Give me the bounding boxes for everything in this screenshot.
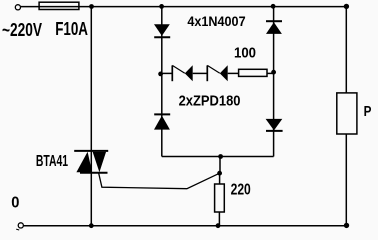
svg-text:~220V: ~220V <box>2 20 42 40</box>
svg-text:F10A: F10A <box>55 19 88 39</box>
svg-text:P: P <box>364 104 372 120</box>
svg-text:0: 0 <box>11 195 19 212</box>
svg-text:2xZPD180: 2xZPD180 <box>179 94 241 110</box>
svg-text:100: 100 <box>234 45 256 61</box>
svg-text:BTA41: BTA41 <box>36 153 68 170</box>
svg-text:4x1N4007: 4x1N4007 <box>187 13 245 29</box>
svg-text:220: 220 <box>231 182 251 199</box>
